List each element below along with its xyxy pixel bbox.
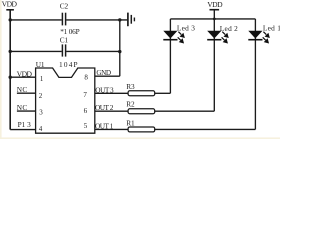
svg-text:4: 4 xyxy=(39,125,43,133)
svg-text:6: 6 xyxy=(84,107,88,115)
svg-text:NC: NC xyxy=(17,103,28,112)
svg-text:VDD: VDD xyxy=(17,69,33,78)
svg-text:C2: C2 xyxy=(60,1,69,10)
svg-text:1: 1 xyxy=(40,75,44,83)
svg-text:GND: GND xyxy=(96,69,110,77)
svg-text:104P: 104P xyxy=(59,60,79,69)
svg-text:R3: R3 xyxy=(126,82,135,91)
svg-text:*1 06P: *1 06P xyxy=(60,27,79,36)
svg-text:OUT 3: OUT 3 xyxy=(95,86,114,95)
svg-text:C1: C1 xyxy=(60,36,69,45)
svg-text:P1 3: P1 3 xyxy=(18,120,32,129)
svg-text:R1: R1 xyxy=(126,118,135,127)
svg-text:Led 3: Led 3 xyxy=(177,24,195,33)
svg-text:VDD: VDD xyxy=(207,0,223,9)
svg-text:Led 1: Led 1 xyxy=(263,23,280,32)
svg-text:NC: NC xyxy=(17,85,28,94)
svg-text:3: 3 xyxy=(39,109,43,117)
svg-text:Led 2: Led 2 xyxy=(220,24,238,33)
svg-text:5: 5 xyxy=(84,122,88,130)
svg-text:VDD: VDD xyxy=(2,0,18,9)
svg-text:R2: R2 xyxy=(126,99,135,108)
svg-text:U1: U1 xyxy=(36,60,45,69)
svg-text:OUT 1: OUT 1 xyxy=(95,121,114,130)
svg-text:OUT 2: OUT 2 xyxy=(95,103,114,112)
svg-text:7: 7 xyxy=(83,91,87,99)
svg-text:8: 8 xyxy=(84,73,88,81)
svg-text:2: 2 xyxy=(39,92,43,100)
